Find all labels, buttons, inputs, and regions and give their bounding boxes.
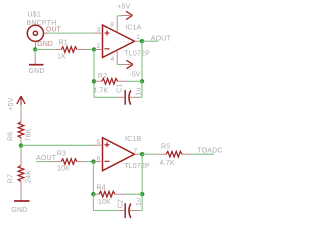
wire output down feedback (141, 41, 143, 97)
wire R4 to right vertical (125, 193, 142, 195)
wire pin6 junction down to R4 (92, 162, 94, 195)
wire AOUT stub (36, 161, 52, 163)
+5V supply bottom left arrow head (17, 96, 25, 104)
pin OUT of U$1 (44, 32, 48, 34)
wire C1 left horizontal (94, 96, 118, 98)
node R4 left junction (91, 192, 95, 196)
wire BNC gnd pin to junction (34, 47, 36, 50)
svg-text:1K: 1K (57, 54, 66, 61)
svg-text:3: 3 (97, 26, 101, 33)
pin 7 stub (135, 153, 142, 155)
wire to AOUT label (142, 40, 158, 42)
node output junction TOADC (140, 152, 144, 156)
capacitor C2 right pin (130, 210, 139, 212)
wire pin8 to +5V supply (117, 15, 121, 17)
resistor R6 leads (20, 113, 22, 143)
svg-text:GND: GND (29, 68, 45, 75)
svg-text:6: 6 (97, 155, 101, 162)
svg-text:R7: R7 (8, 174, 15, 183)
svg-text:TL072P: TL072P (124, 51, 150, 58)
svg-text:C2: C2 (118, 199, 125, 208)
capacitor C1 left pin (118, 96, 125, 98)
svg-text:4.7K: 4.7K (160, 160, 175, 167)
node junction below BNC (33, 47, 37, 51)
resistor R4 zigzag (99, 191, 115, 197)
svg-text:-5V: -5V (129, 71, 141, 78)
pin 8 stub (V+) (116, 16, 118, 33)
resistor R6 zigzag (18, 122, 24, 138)
svg-text:R5: R5 (161, 143, 170, 150)
wire divider junction down to R7 (20, 146, 22, 154)
svg-text:7: 7 (134, 147, 138, 154)
node output junction AOUT (140, 39, 144, 43)
pin 2 stub (94, 49, 103, 51)
wire pin1 to output junction (141, 40, 142, 42)
node R2 left junction (92, 79, 96, 83)
svg-text:GND: GND (37, 41, 53, 48)
op-amp IC1B plus input mark (105, 142, 110, 147)
svg-text:R6: R6 (8, 132, 15, 141)
pin 6 stub (94, 161, 103, 163)
op-amp IC1A minus input mark (105, 48, 110, 50)
resistor R7 leads (20, 154, 22, 193)
-5V supply arrow head (127, 60, 134, 68)
op-amp IC1A plus input mark (105, 31, 110, 36)
capacitor C1 plates (124, 90, 126, 105)
wire +5V to R6 (20, 105, 22, 114)
connector U$1 BNC jack circle (27, 25, 43, 41)
pin 5 stub (94, 144, 103, 146)
svg-text:24K: 24K (26, 170, 33, 183)
+5V supply arrow head (126, 11, 133, 19)
svg-text:U$1: U$1 (28, 12, 41, 19)
node pin2 junction (92, 47, 96, 51)
resistor R5 zigzag (166, 151, 182, 157)
svg-text:2: 2 (97, 43, 101, 50)
svg-text:C1: C1 (117, 84, 124, 93)
wire OUT to IC1A pin 3 (47, 32, 95, 34)
wire output down to R4 (141, 154, 143, 194)
capacitor C2 left pin (118, 210, 125, 212)
svg-text:10K: 10K (98, 199, 111, 206)
pin 1 stub (135, 40, 142, 42)
ground symbol pin bottom (20, 195, 22, 201)
svg-text:OUT: OUT (46, 26, 62, 33)
svg-text:AOUT: AOUT (151, 35, 172, 42)
svg-text:R4: R4 (97, 184, 106, 191)
svg-text:IC1B: IC1B (125, 136, 141, 143)
node R4 right junction (140, 192, 144, 196)
svg-text:76K: 76K (26, 128, 33, 141)
resistor R2 zigzag (102, 79, 118, 85)
op-amp IC1B triangle (103, 138, 135, 171)
svg-text:1u: 1u (136, 87, 143, 95)
svg-text:IC1A: IC1A (125, 25, 141, 32)
svg-text:GND: GND (11, 207, 27, 214)
capacitor C2 plates (124, 203, 126, 218)
wire C2 right to output vertical (139, 194, 143, 210)
resistor R7 zigzag (18, 166, 24, 182)
wire R7 to ground (20, 193, 22, 196)
resistor R5 leads (158, 153, 190, 155)
wire divider junction to IC1B pin 5 (21, 144, 95, 146)
wire R1 to IC1A pin 2 (86, 49, 94, 51)
wire pin7 to output junction (141, 153, 142, 155)
wire R3 to pin6 junction (83, 161, 94, 163)
wire junction to R1 (35, 49, 53, 51)
svg-text:TL072P: TL072P (124, 163, 150, 170)
svg-text:4.7K: 4.7K (93, 87, 108, 94)
-5V supply arrow shaft (121, 64, 131, 66)
pin GND of U$1 (35, 42, 37, 48)
+5V supply bottom left shaft (20, 97, 22, 106)
node pin6 junction (91, 159, 95, 163)
svg-text:10K: 10K (57, 166, 70, 173)
op-amp IC1B minus input mark (105, 160, 110, 162)
wire R5 to TOADC label (191, 153, 215, 155)
resistor R3 leads (52, 161, 84, 163)
ground symbol pin (34, 57, 36, 65)
svg-text:R1: R1 (59, 40, 68, 47)
wire junction to GND symbol (34, 50, 36, 58)
+5V supply arrow shaft (121, 15, 131, 17)
wire pin6 node down to C2 (93, 194, 117, 210)
resistor R2 leads (94, 80, 127, 82)
node R2 right junction (140, 79, 144, 83)
resistor R4 leads (93, 193, 124, 195)
svg-text:1: 1 (136, 34, 140, 41)
op-amp IC1A triangle (103, 25, 135, 58)
svg-text:5: 5 (97, 139, 101, 146)
svg-text:TOADC: TOADC (197, 147, 222, 154)
wire R2 to output vertical (127, 80, 142, 82)
resistor R1 zigzag (61, 47, 77, 53)
svg-text:+5V: +5V (8, 97, 15, 110)
svg-text:R3: R3 (57, 150, 66, 157)
wire C1 right to output vertical (139, 81, 143, 97)
capacitor C1 right pin (130, 96, 139, 98)
wire pin4 to -5V supply (117, 64, 121, 66)
node divider junction (19, 143, 23, 147)
wire pin2 down to R2 (93, 50, 95, 98)
pin 4 stub (V-) (116, 50, 118, 64)
svg-text:4: 4 (111, 56, 115, 63)
svg-text:8: 8 (110, 21, 114, 28)
resistor R1 leads (53, 49, 85, 51)
svg-text:+5V: +5V (117, 4, 130, 11)
resistor R3 zigzag (61, 159, 77, 165)
ground symbol bar (29, 64, 44, 66)
pin 3 stub (94, 32, 103, 34)
wire output to R5 (142, 153, 158, 155)
wire R6 to divider junction (20, 143, 22, 146)
ground symbol bar bottom (14, 200, 30, 202)
